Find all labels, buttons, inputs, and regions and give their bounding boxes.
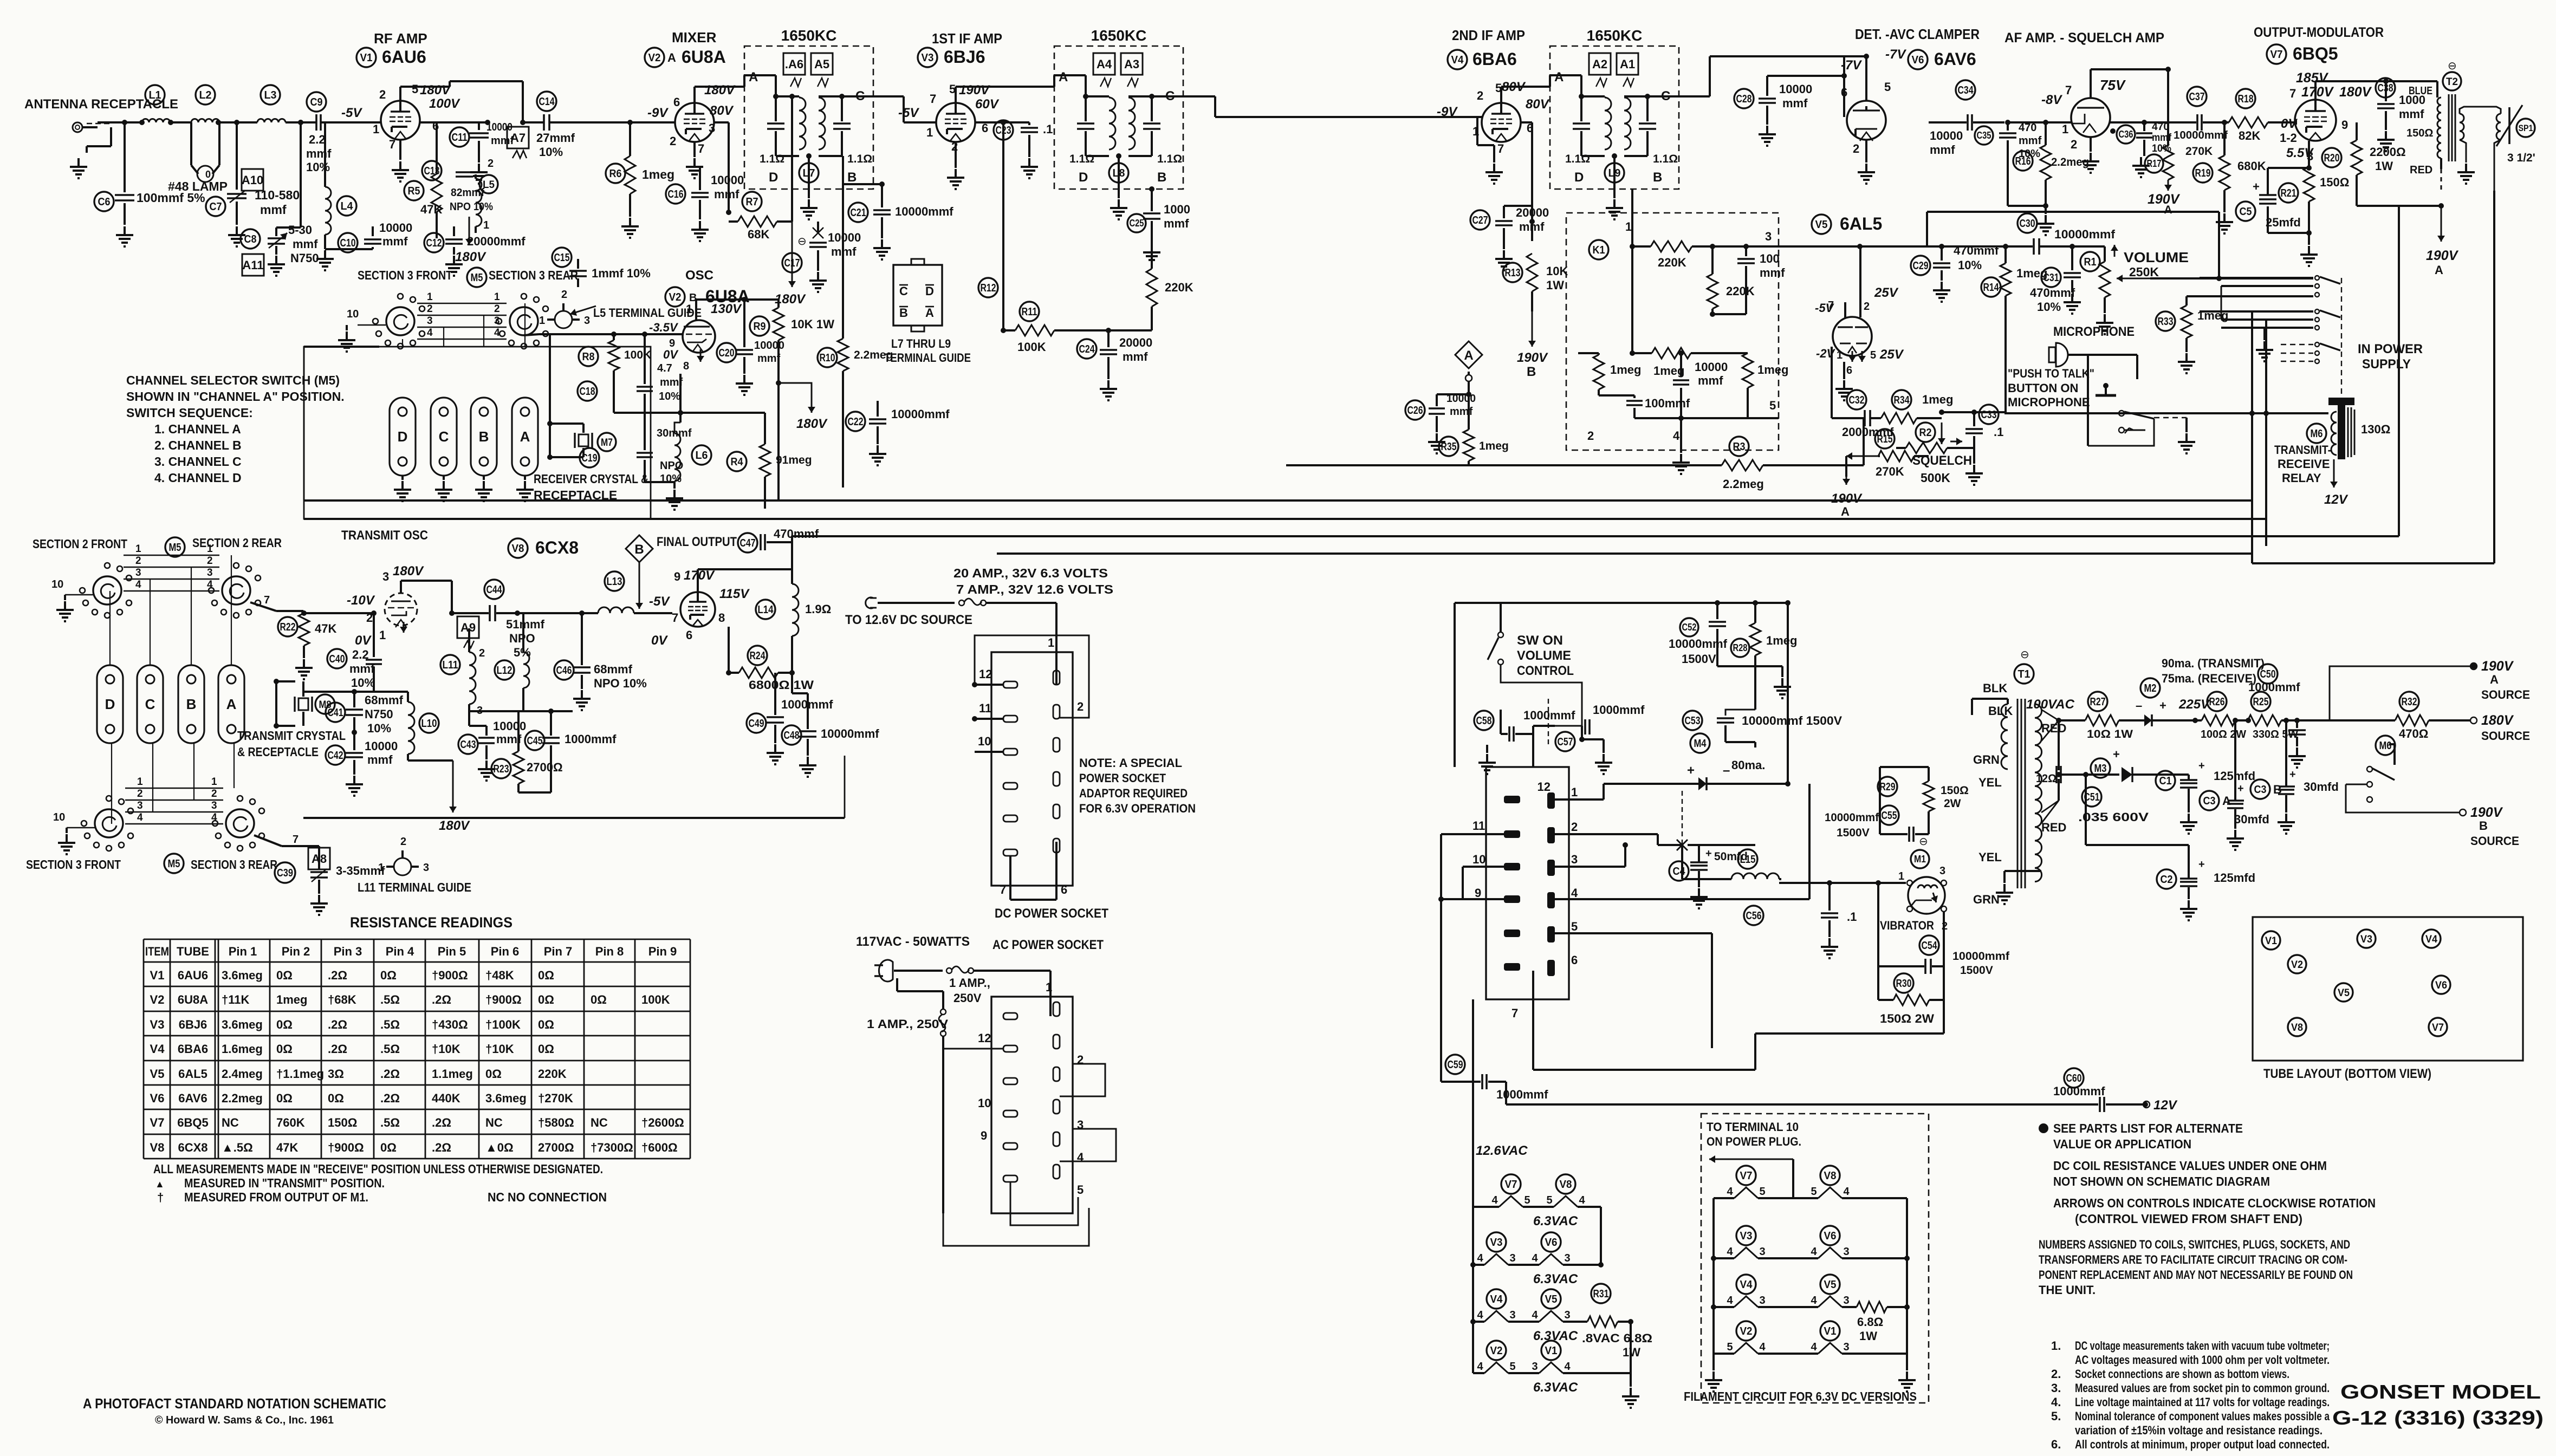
ac socket slots	[1003, 1013, 1017, 1019]
svg-text:1: 1	[1898, 870, 1904, 882]
svg-text:†900Ω: †900Ω	[328, 1141, 364, 1154]
coil L8 primary	[1109, 97, 1115, 149]
svg-text:R3: R3	[1733, 441, 1746, 453]
svg-text:.1: .1	[1994, 425, 2003, 439]
svg-text:R9: R9	[754, 321, 766, 333]
svg-text:150Ω: 150Ω	[1941, 784, 1969, 797]
svg-text:C2: C2	[2161, 874, 2173, 886]
relay contact set 2	[2315, 309, 2319, 314]
ground crystal	[524, 476, 526, 480]
svg-text:mmf: mmf	[1123, 350, 1148, 363]
svg-text:NPO 10%: NPO 10%	[450, 201, 493, 213]
capacitor C32 2000mmf	[1847, 390, 1866, 409]
wires to relay contacts	[2200, 277, 2313, 279]
ac plug	[879, 960, 893, 981]
capacitor C11	[450, 127, 469, 147]
svg-text:mmf: mmf	[2399, 107, 2424, 121]
capacitor C19 30mmf NPO	[580, 448, 599, 467]
svg-text:C25: C25	[1130, 218, 1144, 229]
svg-text:3: 3	[1564, 1309, 1570, 1321]
svg-text:2.: 2.	[2051, 1367, 2061, 1381]
resistor R5 47K	[404, 181, 424, 200]
capacitor C59	[1445, 1055, 1465, 1074]
svg-text:1000mmf: 1000mmf	[1496, 1088, 1548, 1101]
svg-text:BLUE: BLUE	[2409, 85, 2432, 97]
svg-text:R27: R27	[2090, 696, 2106, 708]
svg-text:R14: R14	[1983, 282, 2000, 294]
transmit box bottom	[303, 817, 845, 819]
svg-text:L11: L11	[443, 659, 458, 671]
heater V3f	[1487, 1232, 1506, 1252]
svg-text:SEE PARTS LIST FOR ALTERNA: SEE PARTS LIST FOR ALTERNATE	[2053, 1121, 2243, 1135]
svg-text:V8: V8	[150, 1141, 165, 1154]
wire det top	[1865, 56, 1867, 86]
svg-text:0Ω: 0Ω	[538, 993, 554, 1006]
svg-text:10000mmf: 10000mmf	[1669, 637, 1728, 651]
svg-text:0: 0	[205, 169, 211, 180]
svg-text:SP1: SP1	[2519, 123, 2533, 133]
box A7 trimmer	[507, 127, 529, 148]
crystal M7	[550, 422, 583, 425]
svg-text:V2: V2	[1490, 1345, 1503, 1357]
svg-text:2.2: 2.2	[309, 133, 326, 146]
svg-text:R13: R13	[1505, 267, 1521, 279]
svg-text:6BA6: 6BA6	[178, 1042, 208, 1056]
resistor R20 2200ohm	[2322, 148, 2341, 167]
svg-text:V5: V5	[1824, 1279, 1837, 1291]
svg-text:10000: 10000	[711, 173, 744, 187]
svg-text:-8V: -8V	[2041, 93, 2062, 107]
svg-text:10000: 10000	[828, 231, 861, 244]
coil L7 secondary	[819, 97, 825, 149]
svg-text:4: 4	[1673, 429, 1680, 443]
svg-text:2.4meg: 2.4meg	[222, 1067, 263, 1081]
svg-text:2: 2	[211, 788, 217, 799]
speaker SP1 coil	[2496, 114, 2501, 140]
svg-text:100Ω 2W: 100Ω 2W	[2201, 729, 2246, 740]
svg-text:150Ω: 150Ω	[328, 1116, 357, 1129]
svg-text:5: 5	[1546, 1194, 1552, 1206]
svg-text:0Ω: 0Ω	[538, 1042, 554, 1056]
svg-text:FILAMENT CIRCUIT FOR 6.3V DC V: FILAMENT CIRCUIT FOR 6.3V DC VERSIONS	[1684, 1389, 1917, 1403]
capacitor C18 4.7mmf	[578, 381, 597, 401]
psu socket slots filled	[1504, 796, 1520, 803]
ground V5 pin6	[1843, 362, 1845, 379]
svg-text:C47: C47	[740, 537, 756, 549]
resistor R14 1meg	[1981, 277, 2001, 297]
ground C12	[453, 256, 455, 264]
svg-text:C53: C53	[1685, 715, 1701, 727]
coil L9 secondary	[1624, 97, 1631, 149]
svg-text:80V: 80V	[710, 103, 734, 118]
svg-text:.2Ω: .2Ω	[328, 1042, 347, 1056]
resistor R6 1meg	[606, 164, 625, 183]
wire plate V8 final	[697, 569, 699, 592]
plate wire V8a	[401, 580, 452, 582]
filament right rail	[1600, 1207, 1602, 1265]
svg-text:10000: 10000	[365, 739, 398, 753]
svg-text:V6: V6	[1824, 1230, 1837, 1242]
wire osc box top	[304, 346, 379, 348]
resistor R18 82K	[2236, 89, 2255, 108]
capacitor C60	[2064, 1068, 2084, 1088]
svg-text:C6: C6	[98, 196, 111, 208]
center tap ground	[1613, 156, 1616, 198]
svg-text:125mfd: 125mfd	[2214, 871, 2255, 885]
wire relay to 12V	[2333, 459, 2335, 487]
resistor R31	[1591, 1284, 1611, 1303]
svg-text:100K: 100K	[624, 349, 651, 361]
svg-text:3: 3	[1843, 1341, 1849, 1353]
svg-text:1: 1	[1571, 785, 1578, 799]
heater V6f	[1541, 1232, 1561, 1252]
ground crystal	[483, 476, 485, 480]
svg-text:100K: 100K	[641, 993, 670, 1006]
svg-text:†900Ω: †900Ω	[432, 968, 468, 982]
svg-text:NOTE: A SPECIAL: NOTE: A SPECIAL	[1079, 756, 1182, 770]
svg-text:1meg: 1meg	[276, 993, 307, 1006]
wire V4 1 box	[1476, 117, 1478, 145]
svg-text:M6: M6	[2379, 740, 2392, 752]
resistor R26	[2207, 692, 2227, 711]
crystal pill C tx	[137, 665, 163, 743]
ground crystal	[443, 476, 445, 480]
wire socket4	[1555, 898, 1809, 900]
svg-text:A: A	[749, 70, 758, 84]
svg-text:V5: V5	[2338, 987, 2350, 999]
heater V2f	[1487, 1341, 1506, 1360]
svg-text:B: B	[1527, 365, 1536, 379]
svg-text:†10K: †10K	[485, 1042, 514, 1056]
wire C out to V4	[1183, 95, 1215, 97]
svg-text:10K 1W: 10K 1W	[791, 317, 834, 331]
svg-text:A: A	[2164, 204, 2172, 216]
svg-text:C3: C3	[2254, 784, 2267, 796]
crystal holder B	[471, 398, 497, 476]
svg-text:#48 LAMP: #48 LAMP	[168, 179, 228, 193]
crystal holder D	[390, 398, 416, 476]
wire plug down	[896, 978, 898, 991]
wires coil to caps	[776, 95, 799, 97]
svg-text:25V: 25V	[1879, 347, 1904, 362]
svg-text:1meg: 1meg	[1922, 393, 1953, 406]
tube layout V2	[2288, 955, 2306, 973]
ground R6	[629, 218, 631, 226]
svg-text:7 AMP., 32V 12.6 VOLTS: 7 AMP., 32V 12.6 VOLTS	[956, 582, 1113, 596]
svg-text:1.: 1.	[2051, 1339, 2061, 1353]
capacitor secondary	[1639, 122, 1656, 125]
svg-text:1650KC: 1650KC	[781, 27, 837, 44]
dc socket slots	[1003, 681, 1017, 688]
capacitor C38 1000mmf	[2376, 78, 2395, 97]
svg-text:1meg: 1meg	[1479, 440, 1509, 452]
wire C to V3	[873, 95, 904, 97]
svg-text:3.6meg: 3.6meg	[222, 1018, 263, 1031]
svg-text:10%: 10%	[1958, 258, 1982, 272]
svg-text:1meg: 1meg	[1653, 364, 1684, 378]
svg-text:2: 2	[427, 303, 433, 315]
svg-text:SOURCE: SOURCE	[2470, 834, 2519, 848]
tube V8 triode osc	[385, 593, 417, 626]
wire screen V1 node	[420, 121, 488, 123]
svg-text:1W: 1W	[2375, 159, 2393, 173]
ground det	[1865, 140, 1867, 162]
svg-text:1000mmf: 1000mmf	[565, 732, 617, 746]
svg-text:4: 4	[1532, 1309, 1538, 1321]
svg-text:9: 9	[1475, 886, 1481, 900]
svg-text:10: 10	[51, 578, 63, 590]
ac power socket outline	[991, 997, 1073, 1213]
ground selector	[346, 325, 348, 330]
svg-text:4. CHANNEL D: 4. CHANNEL D	[154, 471, 242, 485]
svg-text:-3.5V: -3.5V	[649, 321, 679, 334]
wire R9 down to bus	[777, 383, 780, 500]
svg-text:R12: R12	[981, 282, 996, 294]
svg-text:C49: C49	[749, 718, 764, 730]
svg-text:L12: L12	[497, 665, 513, 677]
capacitor C27 20000mmf	[1470, 210, 1490, 230]
wire relay bus joins	[2252, 310, 2313, 313]
svg-text:1000mmf: 1000mmf	[1593, 703, 1645, 717]
svg-text:10%: 10%	[351, 676, 375, 690]
svg-text:R28: R28	[1733, 642, 1748, 653]
inductor L3	[261, 85, 280, 105]
coil ref label L9	[1605, 163, 1624, 183]
svg-text:-5V: -5V	[898, 106, 919, 120]
svg-text:A10: A10	[242, 173, 263, 187]
svg-text:1: 1	[135, 543, 141, 555]
svg-text:5: 5	[1870, 349, 1876, 361]
svg-text:20 AMP., 32V 6.3 VOLTS: 20 AMP., 32V 6.3 VOLTS	[953, 566, 1108, 580]
svg-text:.2Ω: .2Ω	[328, 1018, 347, 1031]
capacitor C49 1000mmf	[747, 713, 766, 733]
resistor 220K vertical	[1707, 274, 1718, 309]
svg-text:7: 7	[2065, 83, 2072, 97]
svg-text:mmf: mmf	[306, 147, 332, 160]
capacitor 10000mmf K1	[1680, 353, 1682, 377]
wires coil to caps	[1086, 95, 1109, 97]
svg-text:4: 4	[1571, 886, 1578, 900]
svg-text:†68K: †68K	[328, 993, 356, 1006]
wire bus into relay	[2004, 412, 2328, 414]
wire A side	[775, 75, 777, 96]
svg-text:3Ω: 3Ω	[328, 1067, 344, 1081]
svg-text:C60: C60	[2066, 1072, 2082, 1084]
svg-text:TRANSMIT-: TRANSMIT-	[2274, 443, 2331, 457]
svg-text:20000: 20000	[1119, 336, 1152, 349]
wire 220K cap join	[1712, 313, 1746, 315]
svg-text:1: 1	[378, 862, 384, 874]
ground L6	[673, 490, 676, 498]
svg-text:1. CHANNEL A: 1. CHANNEL A	[154, 422, 241, 436]
vertical wires to crystals	[402, 339, 403, 347]
svg-text:470Ω: 470Ω	[2399, 727, 2428, 740]
svg-text:C56: C56	[1746, 910, 1762, 922]
svg-text:B: B	[634, 542, 644, 557]
svg-text:VIBRATOR: VIBRATOR	[1880, 919, 1934, 932]
svg-text:10%: 10%	[659, 391, 680, 402]
L7 thru L9 terminal guide box	[893, 265, 942, 326]
svg-text:Pin 1: Pin 1	[229, 945, 257, 958]
ground filament	[1630, 1373, 1632, 1387]
svg-text:-5V: -5V	[1815, 301, 1835, 315]
capacitor C56 .1	[1744, 906, 1763, 925]
svg-text:GRN: GRN	[1973, 893, 2000, 906]
resistor R7 68K	[742, 192, 762, 211]
svg-text:C40: C40	[329, 653, 345, 665]
svg-text:3: 3	[1759, 1295, 1765, 1306]
svg-text:Pin 7: Pin 7	[544, 945, 573, 958]
svg-text:.2Ω: .2Ω	[380, 1067, 400, 1081]
resistor R34 1meg	[1892, 390, 1911, 409]
svg-text:FOR 6.3V OPERATION: FOR 6.3V OPERATION	[1079, 802, 1196, 815]
svg-text:V3: V3	[922, 52, 934, 64]
L11 terminal guide	[394, 858, 411, 875]
svg-text:60V: 60V	[975, 97, 1000, 112]
svg-text:7: 7	[293, 834, 299, 846]
relay K1 dashed box	[1566, 213, 1779, 450]
resistor R11 100K	[1020, 302, 1039, 321]
svg-text:10000mmf: 10000mmf	[1825, 811, 1879, 824]
switch M5 section 2 front	[93, 576, 121, 604]
svg-text:& RECEPTACLE: & RECEPTACLE	[237, 745, 319, 759]
svg-text:90ma. (TRANSMIT): 90ma. (TRANSMIT)	[2162, 656, 2265, 670]
resistor R35 1meg	[1439, 437, 1458, 456]
svg-text:Pin 5: Pin 5	[438, 945, 466, 958]
capacitor C2 125mfd	[2157, 869, 2176, 889]
svg-text:2: 2	[1077, 700, 1084, 713]
svg-text:▲0Ω: ▲0Ω	[485, 1141, 514, 1154]
wire 180V branch	[776, 380, 781, 386]
svg-text:6BJ6: 6BJ6	[944, 47, 985, 67]
svg-text:1500V: 1500V	[1682, 652, 1716, 666]
svg-text:1: 1	[483, 219, 489, 231]
svg-text:B: B	[847, 170, 857, 185]
svg-text:.A6: .A6	[785, 57, 803, 71]
svg-text:220K: 220K	[1165, 281, 1193, 294]
wire R17 down 190V	[2168, 180, 2169, 191]
box label A2	[1589, 53, 1611, 75]
resistor R13 10K 1W	[1503, 263, 1522, 282]
svg-text:L10: L10	[421, 718, 437, 730]
svg-text:4: 4	[1727, 1246, 1733, 1258]
svg-text:250K: 250K	[2129, 265, 2159, 279]
svg-text:10000mmf: 10000mmf	[1952, 950, 2010, 963]
svg-text:2700Ω: 2700Ω	[527, 760, 563, 774]
svg-text:V7: V7	[2432, 1022, 2444, 1033]
svg-text:NPO 10%: NPO 10%	[594, 677, 647, 690]
svg-text:L5: L5	[483, 179, 495, 191]
svg-text:.5Ω: .5Ω	[380, 1018, 400, 1031]
svg-text:47K: 47K	[276, 1141, 298, 1154]
svg-text:3: 3	[494, 315, 500, 327]
svg-text:.5Ω: .5Ω	[380, 1042, 400, 1056]
svg-text:B: B	[479, 428, 489, 445]
svg-text:0Ω: 0Ω	[328, 1091, 344, 1105]
svg-text:10000mmf: 10000mmf	[895, 205, 953, 218]
tube V2B triode	[683, 320, 715, 353]
tube V5 6AL5	[1812, 214, 1831, 234]
svg-text:5: 5	[1727, 1341, 1733, 1353]
svg-text:+: +	[2289, 769, 2296, 781]
svg-text:.1: .1	[1847, 910, 1857, 924]
svg-text:11: 11	[979, 701, 991, 715]
svg-text:C59: C59	[1448, 1059, 1463, 1071]
svg-text:V2: V2	[2291, 959, 2303, 971]
heater V3d	[1736, 1226, 1756, 1245]
node diamond B	[626, 535, 653, 562]
svg-text:MICROPHONE: MICROPHONE	[2008, 395, 2090, 409]
capacitor C21	[848, 203, 868, 222]
inductor L11	[440, 655, 460, 674]
resistor R33 1meg	[2156, 311, 2175, 331]
svg-text:C32: C32	[1849, 394, 1865, 406]
crystal M8	[276, 680, 295, 682]
svg-text:TUBE LAYOUT (BOTTOM VIEW): TUBE LAYOUT (BOTTOM VIEW)	[2263, 1067, 2431, 1081]
svg-text:A: A	[520, 428, 530, 445]
svg-text:V3: V3	[150, 1018, 165, 1031]
switch M6b	[2376, 736, 2395, 755]
svg-text:6BJ6: 6BJ6	[179, 1018, 207, 1031]
svg-text:D: D	[925, 284, 934, 298]
svg-text:N750: N750	[365, 707, 393, 721]
svg-text:6AU6: 6AU6	[382, 47, 426, 67]
L5 terminal guide	[555, 311, 572, 328]
svg-text:4: 4	[135, 579, 141, 590]
svg-text:POWER SOCKET: POWER SOCKET	[1079, 771, 1166, 785]
capacitor C35 470mmf	[1975, 126, 1993, 145]
right verticals	[2251, 311, 2253, 563]
wire R8 C18 bottom rail	[614, 412, 680, 414]
svg-text:220K: 220K	[538, 1067, 567, 1081]
svg-text:5: 5	[412, 82, 418, 96]
svg-text:R17: R17	[2147, 158, 2162, 169]
svg-text:68mmf: 68mmf	[594, 662, 633, 676]
wire K1 bottom bus	[1634, 417, 1779, 419]
svg-text:7: 7	[389, 138, 395, 151]
svg-text:†580Ω: †580Ω	[538, 1116, 574, 1129]
svg-text:100: 100	[1760, 252, 1780, 265]
ground V3 cathode	[955, 142, 957, 168]
svg-text:8: 8	[683, 360, 689, 372]
svg-text:+: +	[1705, 848, 1712, 860]
svg-text:1: 1	[926, 126, 933, 139]
potentiometer R1 volume	[2080, 252, 2100, 271]
svg-text:10Ω 1W: 10Ω 1W	[2087, 728, 2133, 740]
svg-text:RELAY: RELAY	[2282, 471, 2321, 485]
bus 924	[304, 499, 2252, 502]
switch M5 label	[467, 268, 486, 287]
svg-text:1meg: 1meg	[642, 167, 674, 181]
resistor R12 220K	[978, 278, 998, 297]
svg-text:10: 10	[347, 308, 359, 320]
svg-text:1: 1	[1048, 636, 1054, 649]
wire plate V1 180V rail	[399, 87, 401, 101]
heater V1d	[1820, 1321, 1840, 1341]
svg-text:190V: 190V	[1831, 491, 1863, 506]
node diamond A	[1455, 341, 1482, 368]
svg-text:V5: V5	[150, 1067, 165, 1081]
svg-text:190V: 190V	[959, 83, 990, 97]
box label A5	[811, 53, 833, 75]
svg-text:1000mmf: 1000mmf	[1523, 708, 1575, 722]
capacitor C28	[1734, 89, 1754, 108]
wire L11 bottom row	[469, 710, 523, 712]
svg-text:ON POWER PLUG.: ON POWER PLUG.	[1707, 1135, 1801, 1148]
svg-text:440K: 440K	[432, 1091, 460, 1105]
svg-text:470mmf: 470mmf	[2030, 286, 2075, 300]
wire socket2 to x	[1555, 833, 1658, 835]
